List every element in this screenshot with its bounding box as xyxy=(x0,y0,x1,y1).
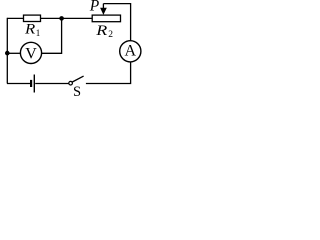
svg-text:S: S xyxy=(73,84,81,100)
svg-text:R: R xyxy=(24,22,36,38)
svg-text:2: 2 xyxy=(108,30,113,40)
svg-text:A: A xyxy=(125,43,137,60)
svg-text:P: P xyxy=(89,0,100,15)
svg-text:R: R xyxy=(95,23,107,39)
svg-text:V: V xyxy=(25,46,37,63)
svg-text:1: 1 xyxy=(36,28,41,38)
